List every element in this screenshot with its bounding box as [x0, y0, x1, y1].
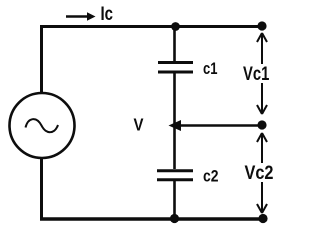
arrowhead pointing left into node V	[169, 120, 182, 131]
wire center vertical: C1 to node V	[173, 74, 176, 128]
wire center vertical: C2 to bottom wire	[173, 181, 176, 220]
svg-text:Vc1: Vc1	[243, 64, 270, 85]
wire left vertical lower	[40, 158, 43, 221]
svg-text:c2: c2	[203, 167, 219, 186]
svg-text:V: V	[134, 115, 144, 135]
capacitor C2	[157, 171, 193, 180]
label Vc1	[242, 64, 272, 85]
node junction dot top center	[171, 22, 180, 31]
wire center vertical: node V to C2	[173, 125, 176, 169]
AC source V	[10, 93, 75, 158]
wire center vertical: top wire to C1	[173, 25, 176, 61]
node junction dot bottom right	[258, 214, 267, 223]
current arrow Ic	[66, 12, 96, 21]
svg-text:Ic: Ic	[101, 4, 114, 25]
node junction dot top right	[257, 21, 266, 30]
voltage arrow Vc2 double-headed	[257, 133, 267, 213]
node junction dot middle right	[257, 120, 266, 129]
wire top horizontal	[40, 25, 263, 28]
wire middle horizontal node V to right rail	[177, 124, 263, 127]
wire left vertical upper	[40, 25, 43, 93]
capacitor C1	[158, 63, 193, 73]
voltage arrow Vc1 double-headed	[257, 33, 267, 114]
svg-text:c1: c1	[203, 59, 218, 78]
label Vc2	[243, 163, 274, 184]
wire bottom horizontal	[40, 217, 264, 220]
svg-text:Vc2: Vc2	[245, 163, 274, 184]
node junction dot bottom center	[170, 214, 179, 223]
